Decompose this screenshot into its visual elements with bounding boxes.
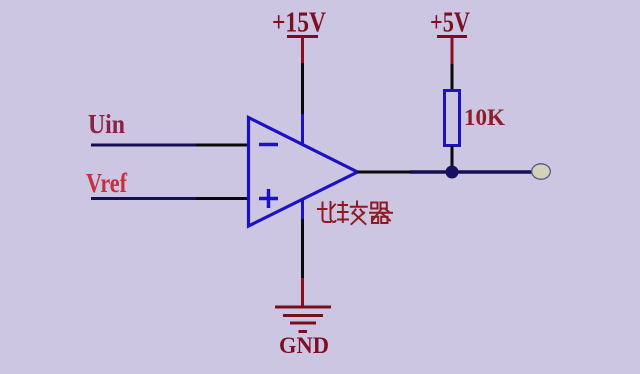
op-amp top power pin: [301, 114, 304, 144]
output port ellipse: [532, 164, 551, 179]
power symbol +15V label: [272, 8, 326, 39]
label comparator (比较器) drawn strokes: [318, 202, 392, 225]
pin non-inverting input: [196, 197, 248, 200]
ground stub: [301, 278, 304, 306]
wire +5V to resistor R1: [451, 64, 454, 90]
power symbol +15V bar: [287, 35, 318, 38]
power symbol +5V stub: [451, 37, 454, 65]
ground label GND: [279, 333, 329, 358]
resistor value label 10K: [464, 105, 505, 130]
op-amp minus sign: [259, 143, 278, 147]
label Uin: [88, 109, 125, 139]
pin output: [358, 171, 411, 174]
power symbol +5V bar: [437, 35, 467, 38]
op-amp U1 comparator triangle: [249, 118, 358, 227]
wire +15V to op-amp top: [301, 63, 304, 114]
pin inverting input: [196, 144, 248, 147]
ground bars: [275, 307, 331, 332]
svg-text:+5V: +5V: [430, 8, 470, 39]
比: [323, 203, 331, 223]
wire output to port: [410, 170, 532, 174]
wire Uin input: [91, 144, 196, 147]
wire resistor R1 to output node: [451, 146, 454, 172]
svg-text:Vref: Vref: [86, 168, 128, 198]
svg-text:+15V: +15V: [272, 8, 326, 39]
wire Vref input: [91, 197, 196, 200]
svg-text:10K: 10K: [464, 105, 505, 130]
较: [339, 204, 348, 206]
svg-text:GND: GND: [279, 333, 329, 358]
junction node dot: [446, 166, 459, 179]
resistor R1 10K: [445, 91, 460, 146]
op-amp bottom power pin: [301, 199, 304, 219]
wire op-amp bottom to ground: [301, 219, 304, 278]
svg-text:Uin: Uin: [88, 109, 125, 139]
power symbol +5V label: [430, 8, 470, 39]
label Vref: [86, 168, 128, 198]
器: [371, 203, 377, 209]
op-amp plus sign: [259, 189, 278, 208]
power symbol +15V stub: [301, 37, 304, 64]
